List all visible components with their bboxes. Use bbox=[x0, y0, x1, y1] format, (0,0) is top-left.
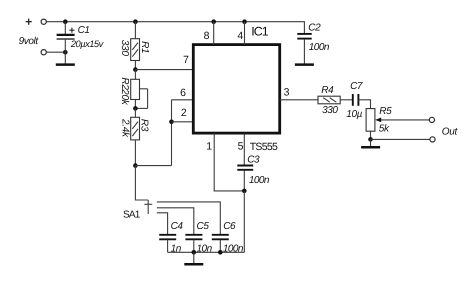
capacitor C3 bbox=[237, 166, 253, 191]
label C1 plus bbox=[69, 28, 74, 33]
svg-text:5k: 5k bbox=[379, 124, 390, 135]
svg-text:R3: R3 bbox=[139, 119, 150, 132]
capacitor C5 bbox=[185, 235, 202, 253]
resistor R3 bbox=[131, 108, 140, 165]
svg-text:1: 1 bbox=[206, 140, 212, 152]
svg-text:R1: R1 bbox=[139, 41, 150, 53]
svg-text:IC1: IC1 bbox=[251, 25, 268, 39]
wire top rail V+ bbox=[46, 21, 304, 23]
wire out bottom bbox=[371, 138, 430, 140]
node bus-C6 bbox=[218, 250, 223, 255]
terminal minus bbox=[41, 50, 46, 55]
node pin1-C3 bbox=[242, 189, 247, 194]
node rail-R1 bbox=[133, 19, 138, 24]
capacitor C4 bbox=[159, 235, 176, 253]
svg-text:8: 8 bbox=[204, 30, 210, 42]
wire switch to C4 bbox=[157, 213, 168, 235]
node minus-C1 bbox=[63, 50, 68, 55]
ground C2 bbox=[295, 63, 314, 66]
wire pin 6 bbox=[172, 99, 194, 101]
svg-text:330: 330 bbox=[119, 40, 130, 57]
svg-text:3: 3 bbox=[284, 87, 290, 99]
ground caps bbox=[184, 252, 203, 264]
svg-text:5: 5 bbox=[238, 140, 244, 152]
svg-text:C5: C5 bbox=[197, 221, 210, 232]
capacitor C7 bbox=[353, 94, 359, 106]
svg-text:330: 330 bbox=[322, 105, 338, 116]
svg-text:2.4k: 2.4k bbox=[120, 118, 131, 138]
svg-text:TS555: TS555 bbox=[250, 141, 278, 153]
label plus bbox=[26, 19, 32, 25]
wire C7 to R5 bbox=[358, 100, 370, 109]
svg-text:100n: 100n bbox=[309, 42, 330, 53]
svg-text:C6: C6 bbox=[223, 221, 236, 232]
wire switch to C6 bbox=[157, 202, 221, 234]
svg-text:9volt: 9volt bbox=[19, 36, 40, 47]
node pin2 junction bbox=[169, 120, 174, 125]
svg-text:Out: Out bbox=[442, 127, 459, 138]
trimmer R2 bbox=[131, 70, 148, 109]
switch SA1 bbox=[144, 200, 152, 214]
svg-text:R4: R4 bbox=[321, 85, 334, 96]
capacitor C1 bbox=[57, 22, 75, 53]
wire R3 bottom to pin2 column bbox=[135, 165, 171, 167]
svg-text:C3: C3 bbox=[247, 154, 260, 165]
terminal Out top bbox=[429, 117, 434, 122]
node rail-pin4 bbox=[242, 19, 247, 24]
terminal plus bbox=[41, 19, 46, 24]
wire R4 to C7 bbox=[340, 99, 353, 101]
wire C3 down to bus bbox=[243, 191, 245, 252]
wire C2 drop from rail bbox=[303, 21, 305, 33]
node pin7 junction bbox=[133, 67, 138, 72]
svg-text:C7: C7 bbox=[350, 81, 363, 92]
svg-text:20k: 20k bbox=[119, 88, 130, 106]
resistor R1 bbox=[131, 22, 140, 70]
wire bottom bus bbox=[168, 251, 245, 253]
resistor R4 bbox=[318, 96, 340, 104]
wire pin 3 bbox=[280, 99, 318, 101]
svg-text:R5: R5 bbox=[379, 106, 392, 117]
potentiometer R5 bbox=[366, 109, 429, 140]
wire minus bbox=[46, 51, 65, 53]
svg-text:4: 4 bbox=[237, 30, 243, 42]
wire R3 node down to switch bbox=[135, 166, 148, 200]
wire pin 4 lead bbox=[244, 22, 246, 45]
svg-text:100n: 100n bbox=[249, 175, 270, 186]
op-amp/IC U1 box TS555 bbox=[193, 45, 279, 134]
svg-text:7: 7 bbox=[183, 54, 189, 66]
node rail-pin8 bbox=[211, 19, 216, 24]
capacitor C6 bbox=[212, 235, 229, 253]
node R5 bottom bbox=[368, 137, 373, 142]
wire switch to C5 bbox=[157, 208, 194, 235]
svg-text:C1: C1 bbox=[78, 25, 90, 36]
capacitor C2 bbox=[297, 34, 311, 64]
node R3 bottom bbox=[133, 163, 138, 168]
wire pin 5 lead bbox=[243, 134, 245, 165]
ground C1 bbox=[56, 52, 75, 64]
node R2-R3 junction bbox=[133, 106, 138, 111]
node bus-C5-ground bbox=[192, 250, 197, 255]
terminal Out bottom bbox=[430, 137, 435, 142]
wire pin 7 bbox=[135, 69, 193, 71]
svg-text:SA1: SA1 bbox=[123, 210, 141, 221]
svg-text:C4: C4 bbox=[171, 221, 184, 232]
svg-text:2: 2 bbox=[181, 107, 187, 119]
svg-text:C2: C2 bbox=[308, 23, 321, 34]
wire pin 1 lead bbox=[214, 134, 244, 191]
svg-text:6: 6 bbox=[180, 87, 186, 99]
wire pin6-pin2 vertical bbox=[171, 100, 173, 166]
svg-text:10µ: 10µ bbox=[346, 109, 362, 120]
wire pin 8 lead bbox=[213, 22, 215, 45]
node rail-C1 bbox=[63, 19, 68, 24]
svg-text:20µx15v: 20µx15v bbox=[70, 39, 105, 49]
ground R5 bbox=[361, 139, 380, 147]
wire pin 2 bbox=[172, 121, 194, 123]
